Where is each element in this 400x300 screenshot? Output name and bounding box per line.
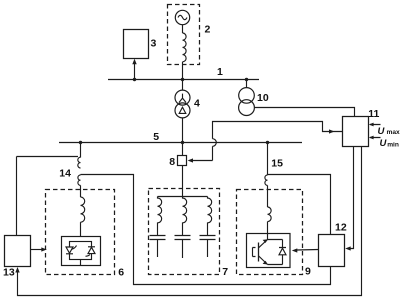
svg-text:11: 11 xyxy=(368,108,379,120)
svg-text:max: max xyxy=(387,129,400,136)
svg-text:14: 14 xyxy=(59,167,71,179)
svg-text:4: 4 xyxy=(194,98,200,110)
svg-text:3: 3 xyxy=(151,37,157,49)
svg-text:13: 13 xyxy=(3,267,15,279)
svg-text:15: 15 xyxy=(271,158,283,170)
svg-text:1: 1 xyxy=(217,66,223,78)
svg-text:10: 10 xyxy=(257,92,269,104)
svg-text:2: 2 xyxy=(205,24,211,36)
svg-text:12: 12 xyxy=(335,222,347,234)
svg-text:8: 8 xyxy=(169,156,175,168)
svg-text:7: 7 xyxy=(222,266,228,278)
svg-text:5: 5 xyxy=(153,131,159,143)
svg-text:6: 6 xyxy=(118,267,124,279)
svg-text:U: U xyxy=(378,126,386,137)
svg-text:9: 9 xyxy=(305,266,311,278)
svg-text:min: min xyxy=(387,141,399,148)
